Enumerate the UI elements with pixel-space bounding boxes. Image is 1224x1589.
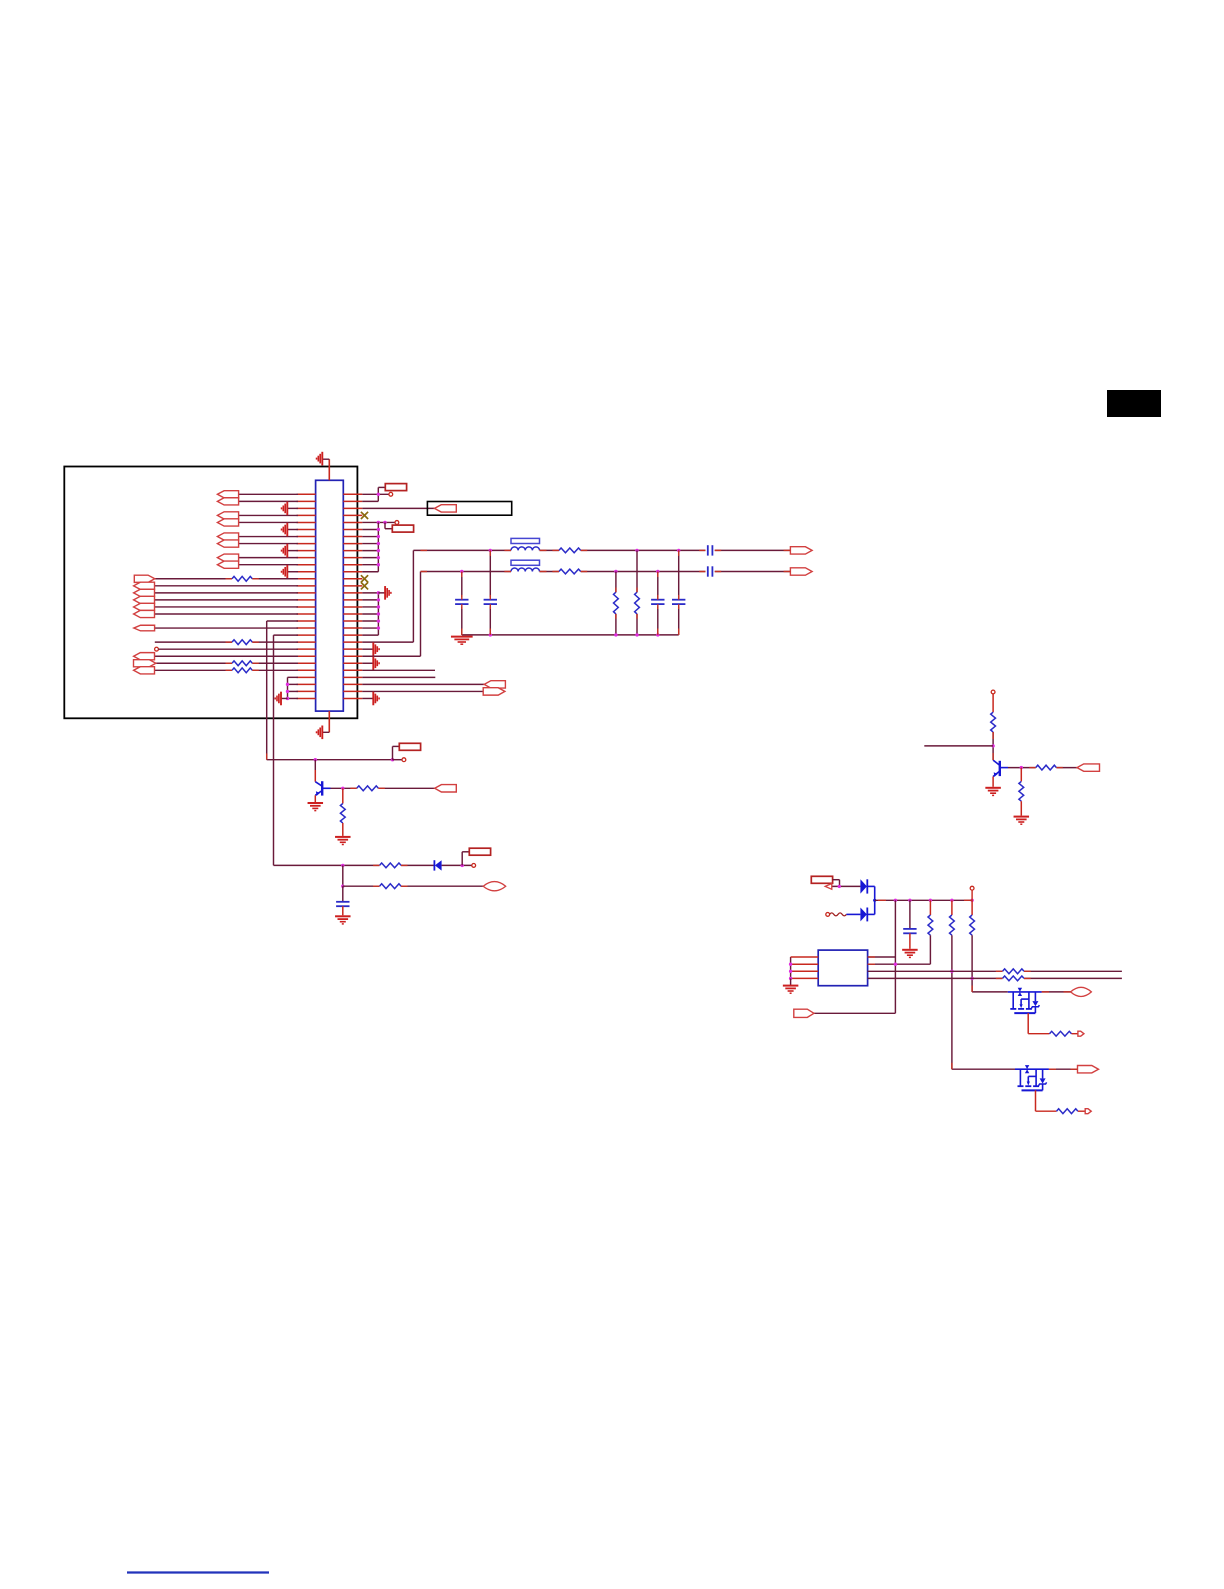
- wire net to label N1 (rows 0-1): [362, 487, 392, 501]
- wire with open terminal (row22): [155, 647, 298, 651]
- capacitor C6 to bus: [672, 550, 685, 635]
- resistor R5: [559, 548, 581, 553]
- filter ground bus wire: [462, 633, 679, 636]
- resistor R11: [380, 863, 402, 868]
- port P19 (right-pointing): [790, 568, 812, 575]
- resistor R19: [1003, 969, 1025, 974]
- wire net to port P23: [814, 957, 897, 1013]
- frame box around port P15: [427, 502, 511, 516]
- wire U2 row4 long net: [868, 977, 1122, 979]
- port P23 (right-pointing): [794, 1009, 814, 1017]
- port P16 (left-pointing) row27: [362, 681, 505, 688]
- resistor R8 to bus: [635, 550, 640, 635]
- wire row2 to frame box: [362, 507, 434, 509]
- port P5 (right-pointing) with resistor R1: [134, 575, 298, 582]
- port P7 (left-pointing): [134, 589, 298, 596]
- port P22 (left-pointing): [1077, 764, 1100, 771]
- ground under C8: [902, 949, 918, 951]
- arrowhead marker at D2 input: [825, 884, 832, 890]
- resistor R9: [357, 786, 379, 791]
- wire stub row25: [362, 669, 435, 671]
- ground at Q2 emitter: [985, 787, 1001, 789]
- wire stub row26: [362, 676, 435, 678]
- power rail wire: [875, 899, 974, 902]
- resistor R22: [1057, 1109, 1078, 1114]
- diode D1 (cathode left): [434, 860, 441, 870]
- resistor R6: [559, 569, 581, 574]
- ground at U1 top: [321, 452, 323, 466]
- wire Q3 source to R21: [1028, 1013, 1049, 1034]
- capacitor C8 to ground: [903, 900, 916, 949]
- port P18 (right-pointing): [790, 547, 812, 554]
- diode D2 (pointing right): [860, 879, 874, 893]
- capacitor C5 to bus: [651, 572, 664, 635]
- port P25 (small right-pointing): [1072, 1031, 1084, 1036]
- port P8 (left-pointing): [134, 596, 298, 603]
- wire bus bundle rows4-11: [362, 522, 380, 571]
- open terminal above R13: [991, 690, 995, 712]
- resistor R7 to bus: [614, 572, 619, 635]
- wire U2 left pins to ground: [789, 957, 818, 985]
- open terminal at D3 input: [826, 913, 830, 917]
- wire terminal tints: [226, 550, 1078, 1069]
- connector box CN1 outline: [64, 467, 357, 719]
- port P27 (small right-pointing): [1078, 1109, 1091, 1114]
- wire to R12 row: [341, 865, 483, 888]
- resistor R15 to ground: [1019, 768, 1024, 816]
- wire U1 top pin: [328, 459, 330, 480]
- capacitor C7 to ground: [336, 886, 349, 915]
- no-connect cross row12: [361, 575, 368, 582]
- U1 left pin stubs: [297, 494, 316, 698]
- wire Q2 base node: [1008, 766, 1077, 769]
- port P14 (left-pointing) with resistor R4: [134, 667, 298, 674]
- capacitor C2 (series): [708, 566, 713, 576]
- footer underline: [127, 1571, 269, 1573]
- wire U1 bottom pin: [328, 711, 330, 732]
- ground under C7: [335, 915, 351, 917]
- ground under R15: [1014, 816, 1030, 818]
- wire net to label N2 (row4): [362, 521, 399, 529]
- resistor R16 (rail to row2): [868, 900, 933, 964]
- filter line B wire: [421, 570, 791, 573]
- resistor R17 (rail down): [950, 900, 955, 1069]
- port P15 (left-pointing, inside frame): [435, 505, 457, 512]
- open terminal above rail: [970, 886, 974, 900]
- ground at U1 bottom: [321, 726, 323, 740]
- capacitor C1 (series): [708, 545, 713, 555]
- port P20 (left-pointing): [435, 785, 457, 792]
- label N4: [469, 848, 490, 855]
- port P3b (left-pointing): [217, 540, 298, 547]
- IC U1 body: [316, 480, 344, 711]
- resistor R18 (rail down): [970, 900, 975, 992]
- port P3a (left-pointing): [217, 533, 298, 540]
- resistor R14: [1036, 765, 1057, 770]
- ground at Q1 emitter: [308, 802, 324, 804]
- wire bus bundle rows14-20 with ground: [362, 591, 385, 635]
- ground at rows26-29 bundle: [280, 692, 282, 706]
- port P6 (left-pointing): [134, 582, 298, 589]
- resistor R2 row: [155, 640, 298, 645]
- page mark (filled black rectangle): [1107, 390, 1161, 417]
- U1 right pin stubs: [343, 494, 362, 698]
- label N3: [399, 743, 420, 750]
- wire Q1 emitter to ground: [314, 795, 316, 802]
- port P21 (bidirectional): [483, 882, 506, 891]
- port P17 (right-pointing) row28: [362, 688, 505, 695]
- port P26 (right-pointing): [1078, 1066, 1099, 1073]
- wire Q2 collector node: [924, 732, 995, 760]
- port P1b (left-pointing): [217, 498, 298, 505]
- label N5: [811, 876, 832, 883]
- wire net K1 (row18 to Q1 area): [267, 621, 298, 760]
- ground at row22: [362, 642, 379, 656]
- ground at row29: [362, 692, 379, 706]
- wire collector node row (net K1): [267, 746, 406, 761]
- IC U2 body: [818, 950, 867, 986]
- transistor Q1 (NPN): [315, 760, 330, 796]
- diode D3 (pointing right): [846, 908, 874, 922]
- resistor R12: [380, 884, 402, 889]
- flex wire to D3: [830, 913, 847, 916]
- no-connect cross row13: [361, 582, 368, 589]
- transistor Q2 (NPN): [993, 760, 1008, 777]
- ground at U1 left pin row 2: [282, 502, 299, 516]
- port P13 (right-pointing) with resistor R3: [134, 660, 299, 667]
- MOSFET Q4 cluster: [952, 1065, 1078, 1090]
- ground at filter bus: [451, 636, 473, 638]
- wire row23 to filter line B: [362, 572, 420, 657]
- wire from N5 to diode D2: [832, 880, 861, 888]
- capacitor C3 to bus: [455, 572, 468, 635]
- resistor R21: [1050, 1031, 1072, 1036]
- wire Q2 emitter to ground: [992, 777, 994, 787]
- ground under R10: [335, 836, 351, 838]
- wire net K2 (row20 to diode row): [274, 635, 299, 865]
- ground at bundle row14: [384, 586, 386, 600]
- wire diode row (net K2): [274, 852, 476, 868]
- wire Q1 base node: [331, 787, 435, 790]
- port P24 (bidirectional): [1071, 987, 1092, 996]
- port P11 (small left-pointing): [134, 625, 298, 631]
- port P4a (left-pointing): [217, 554, 298, 561]
- port P4b (left-pointing): [217, 561, 298, 568]
- resistor R20: [1003, 976, 1025, 981]
- port P9 (left-pointing): [134, 603, 298, 610]
- wire bundle rows26-29 to ground: [281, 677, 298, 700]
- port P12 (left-pointing): [134, 653, 298, 660]
- ferrite bead L2: [511, 560, 540, 571]
- resistor R13: [991, 712, 996, 732]
- ground at U1 left pin row 5: [282, 523, 299, 537]
- wire rail to U2 pin row1: [868, 900, 896, 957]
- port P10 (left-pointing): [134, 610, 298, 617]
- wire row21 to filter line A: [362, 550, 413, 642]
- MOSFET Q3 cluster: [972, 988, 1071, 1013]
- capacitor C4 to bus: [484, 550, 497, 635]
- ground at U1 left pin row 8: [282, 544, 299, 558]
- port P2b (left-pointing): [217, 519, 298, 526]
- ground at U2 left pins: [783, 985, 799, 987]
- wire Q4 source to R22: [1036, 1090, 1057, 1111]
- label N1: [385, 484, 406, 491]
- no-connect cross row3: [361, 512, 368, 519]
- resistor R10 to ground: [340, 788, 345, 836]
- port P2a (left-pointing): [217, 512, 298, 519]
- ferrite bead L1: [511, 538, 540, 550]
- wire U2 row3 long net: [868, 970, 1122, 972]
- label N2: [392, 525, 413, 532]
- port P1a (left-pointing): [217, 491, 298, 498]
- ground at row24: [362, 656, 379, 670]
- ground at U1 left pin row 11: [282, 565, 299, 579]
- filter line A wire: [413, 549, 790, 552]
- wire diode join to rail: [873, 886, 876, 914]
